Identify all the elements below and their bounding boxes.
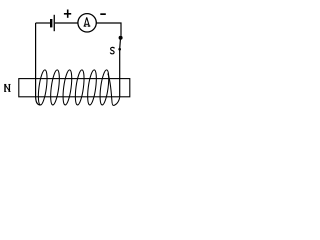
coil L1 turn 4 (74, 69, 86, 105)
wire ammeter to top-right corner and down to switch (96, 23, 121, 36)
coil L1 turn 1 (37, 69, 49, 105)
switch S top contact dot (119, 36, 123, 40)
coil L1 turn 3 (61, 69, 73, 105)
coil L1 turn 6 (98, 69, 110, 105)
coil L1 exit wire to right lead (108, 74, 120, 106)
coil L1 turn 2 (49, 69, 61, 105)
battery B1 positive plate (long thin) (54, 15, 55, 31)
coil L1 turn 5 (86, 69, 98, 105)
label N (4, 84, 10, 91)
label + (ammeter positive terminal) (64, 10, 71, 18)
switch S lever (119, 40, 122, 49)
wire battery to ammeter (55, 22, 78, 24)
coil core rectangle (19, 79, 130, 97)
ammeter letter A (84, 17, 91, 26)
label - (ammeter negative terminal) (100, 13, 106, 15)
switch S bottom contact dot (118, 48, 121, 51)
label S (110, 47, 114, 53)
wire switch down into coil core (119, 50, 121, 97)
battery B1 negative plate (short thick) (50, 19, 52, 27)
ammeter M1 circle (78, 14, 96, 32)
wire top-left horizontal from corner to battery (36, 22, 50, 24)
wire left vertical from battery down into coil with lead-in curve (36, 23, 41, 105)
